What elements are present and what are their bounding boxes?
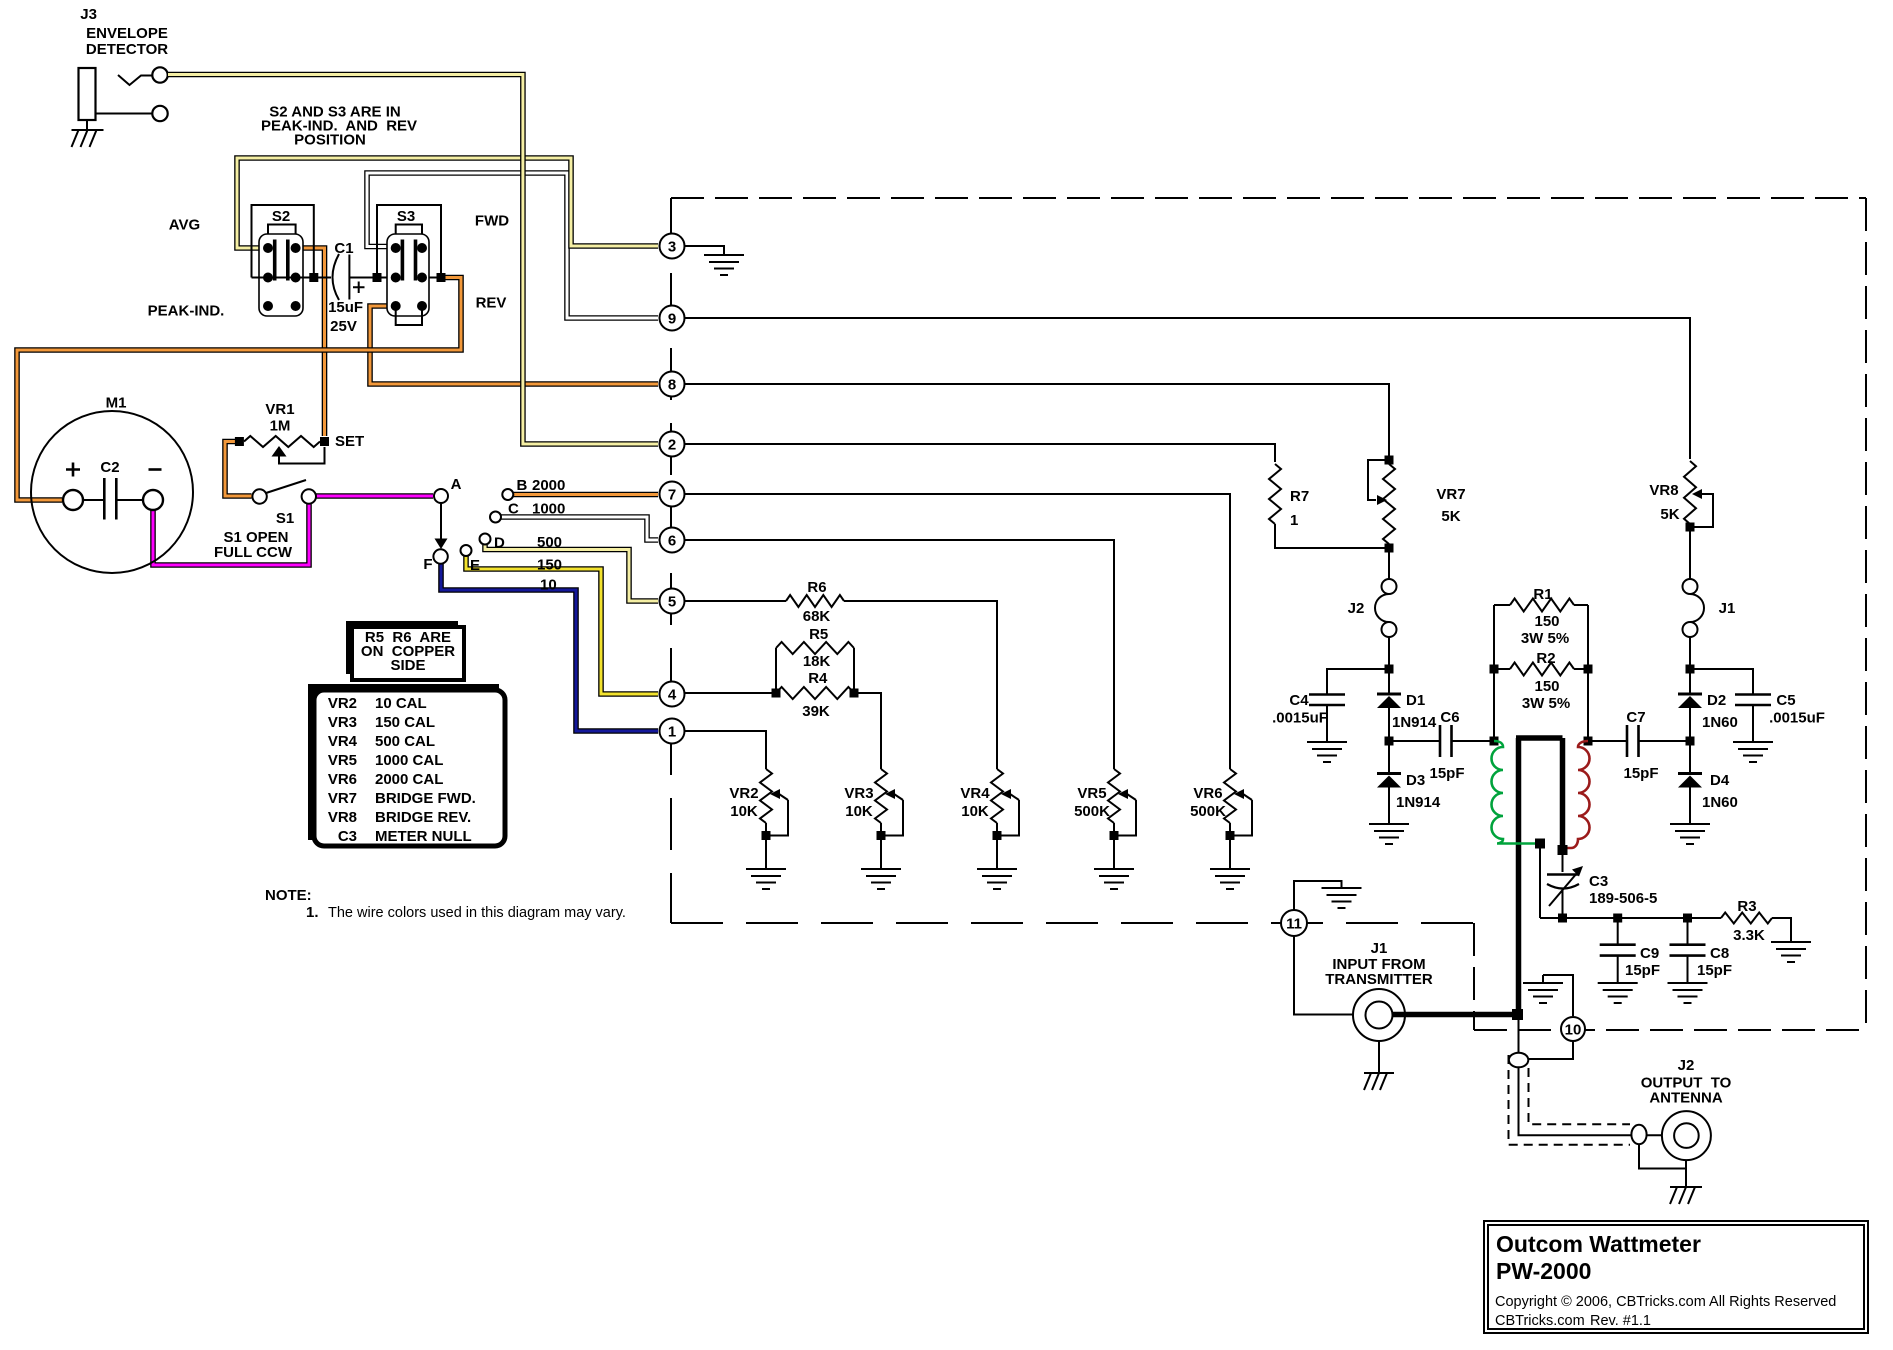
resistor R7 1	[1269, 464, 1385, 548]
svg-text:189-506-5: 189-506-5	[1589, 890, 1657, 907]
svg-text:5: 5	[668, 594, 676, 611]
wire row to C6	[1389, 740, 1440, 742]
svg-text:3: 3	[668, 239, 676, 256]
ground C8	[1668, 983, 1708, 1003]
svg-text:10K: 10K	[961, 803, 989, 820]
resistor R4 39K	[776, 687, 854, 699]
ground C5	[1733, 742, 1773, 762]
svg-text:10K: 10K	[845, 803, 873, 820]
svg-text:C3: C3	[338, 828, 357, 845]
svg-text:.0015uF: .0015uF	[1272, 710, 1328, 727]
PCB dashed border top	[671, 197, 1866, 199]
node D	[480, 534, 491, 545]
svg-text:C1: C1	[334, 240, 353, 257]
info box R5 R6 ARE ON COPPER SIDE	[346, 621, 464, 680]
wire to C4	[1327, 669, 1389, 694]
svg-text:VR7: VR7	[1436, 486, 1465, 503]
wire terminal 2 to R7	[684, 444, 1275, 462]
svg-text:VR3: VR3	[328, 714, 357, 731]
potentiometer VR7 5K	[1368, 460, 1395, 579]
wire to C5	[1690, 669, 1753, 694]
wire R6 to VR4	[844, 601, 997, 769]
terminal 5	[660, 589, 685, 614]
svg-text:5K: 5K	[1441, 508, 1460, 525]
node C	[490, 512, 501, 523]
svg-text:15pF: 15pF	[1697, 962, 1732, 979]
svg-text:4: 4	[668, 687, 677, 704]
svg-text:BRIDGE REV.: BRIDGE REV.	[375, 809, 471, 826]
svg-text:150 CAL: 150 CAL	[375, 714, 435, 731]
terminal 2	[660, 432, 685, 457]
meter terminal plus	[63, 490, 83, 510]
wire terminal 1 to VR2	[684, 731, 766, 769]
title block	[1484, 1221, 1868, 1333]
PCB dashed border left	[670, 198, 672, 923]
ground D4	[1670, 824, 1710, 844]
svg-text:150: 150	[1534, 678, 1559, 695]
svg-text:PW-2000: PW-2000	[1496, 1258, 1591, 1284]
svg-text:C3: C3	[1589, 873, 1608, 890]
junction VR1 SET	[320, 437, 329, 446]
ground chassis J1	[1364, 1041, 1394, 1090]
svg-text:The wire colors used in this d: The wire colors used in this diagram may…	[328, 905, 626, 921]
ground VR6	[1229, 850, 1231, 868]
terminal 6	[660, 528, 685, 553]
svg-text:15uF: 15uF	[328, 299, 363, 316]
table box VR2-C3 functions	[308, 684, 505, 846]
svg-text:R1: R1	[1533, 586, 1552, 603]
wire terminal 7 to VR6	[684, 494, 1230, 769]
svg-text:500: 500	[537, 534, 562, 551]
wire magenta S1 to node A	[316, 493, 433, 499]
junction VR8 bottom	[1686, 523, 1695, 532]
svg-text:1N60: 1N60	[1702, 714, 1738, 731]
svg-text:18K: 18K	[803, 653, 831, 670]
ground VR4	[996, 850, 998, 868]
svg-text:1000: 1000	[532, 501, 565, 518]
wire orange S2 to VR1 SET	[296, 248, 325, 436]
junction R2 left	[1490, 665, 1499, 674]
svg-text:VR5: VR5	[1077, 785, 1106, 802]
svg-text:1: 1	[668, 724, 676, 741]
wire S2 middle row to C1	[252, 277, 332, 279]
switch S1	[252, 480, 316, 504]
PCB dashed border bottom-left	[671, 922, 1474, 924]
svg-text:J1: J1	[1371, 940, 1388, 957]
svg-text:3W 5%: 3W 5%	[1521, 630, 1569, 647]
switch S2	[252, 205, 314, 316]
resistor R1 150 3W 5%	[1494, 599, 1588, 742]
arrow A to F	[435, 503, 448, 549]
wire blue node F to terminal 1	[441, 563, 658, 731]
svg-text:500 CAL: 500 CAL	[375, 733, 435, 750]
capacitor C6 15pF	[1440, 725, 1494, 757]
svg-text:25V: 25V	[330, 318, 357, 335]
resistor R3 3.3K	[1721, 913, 1791, 942]
svg-text:D: D	[494, 535, 505, 552]
svg-text:SET: SET	[335, 433, 364, 450]
svg-text:C5: C5	[1776, 692, 1795, 709]
svg-text:1N60: 1N60	[1702, 794, 1738, 811]
svg-text:S1: S1	[276, 510, 294, 527]
junction D1 bottom	[1385, 737, 1394, 746]
terminal 7	[660, 482, 685, 507]
svg-text:1N914: 1N914	[1396, 794, 1441, 811]
diode D3 1N914	[1377, 741, 1401, 823]
svg-text:R5: R5	[809, 626, 828, 643]
label ENVELOPE DETECTOR	[86, 25, 168, 58]
svg-text:REV: REV	[476, 295, 507, 312]
svg-text:FULL CCW: FULL CCW	[214, 544, 293, 561]
junction green tap	[1535, 839, 1545, 849]
wire line down to feedthrough	[1518, 1015, 1520, 1054]
svg-text:C9: C9	[1640, 945, 1659, 962]
svg-text:DETECTOR: DETECTOR	[86, 41, 168, 58]
svg-text:R6: R6	[807, 579, 826, 596]
svg-text:NOTE:: NOTE:	[265, 887, 312, 904]
junction core bottom	[1558, 845, 1568, 855]
junction VR7 bottom	[1385, 544, 1394, 553]
capacitor C7 15pF	[1627, 725, 1690, 757]
svg-text:68K: 68K	[803, 608, 831, 625]
svg-text:VR6: VR6	[1193, 785, 1222, 802]
svg-text:1.: 1.	[306, 904, 319, 921]
svg-text:Outcom Wattmeter: Outcom Wattmeter	[1496, 1231, 1701, 1257]
svg-text:R7: R7	[1290, 488, 1309, 505]
svg-text:Rev. #1.1: Rev. #1.1	[1590, 1313, 1651, 1329]
diode D4 1N60	[1678, 741, 1702, 823]
jack J3 envelope detector	[79, 67, 168, 121]
label plus	[66, 463, 80, 477]
svg-text:VR4: VR4	[328, 733, 358, 750]
wire feedthrough to terminal 10	[1528, 1041, 1573, 1059]
svg-text:VR4: VR4	[960, 785, 990, 802]
svg-text:C2: C2	[100, 459, 119, 476]
svg-text:POSITION: POSITION	[294, 132, 366, 149]
wire terminal 5 to R6	[684, 600, 786, 602]
junction R4 right	[850, 689, 859, 698]
wire J2 to row	[1388, 637, 1390, 694]
ground chassis J2	[1639, 1145, 1702, 1205]
wire R4 to VR3	[854, 693, 881, 769]
svg-text:R3: R3	[1737, 898, 1756, 915]
label J1 INPUT FROM TRANSMITTER	[1325, 940, 1433, 988]
terminal 3	[660, 234, 685, 259]
svg-text:A: A	[451, 476, 462, 493]
svg-text:J1: J1	[1719, 600, 1736, 617]
terminal 10	[1561, 1017, 1585, 1041]
svg-text:J2: J2	[1678, 1057, 1695, 1074]
wire orange S3 middle to M1 plus terminal	[17, 278, 461, 501]
potentiometer VR3 10K	[875, 769, 903, 850]
svg-text:2: 2	[668, 437, 676, 454]
wire terminal 11 up to ground	[1294, 881, 1362, 910]
ground C4	[1307, 742, 1347, 762]
svg-text:7: 7	[668, 487, 676, 504]
coax jack J1 input from transmitter	[1353, 989, 1405, 1041]
ground D3	[1369, 824, 1409, 844]
feedthrough insulator	[1509, 1053, 1528, 1068]
potentiometer VR2 10K	[760, 769, 788, 850]
svg-text:VR2: VR2	[328, 695, 357, 712]
svg-text:F: F	[423, 556, 432, 573]
wire orange S3 REV contact to terminal 8	[370, 306, 658, 384]
note wire colors	[265, 887, 626, 921]
ground VR5	[1113, 850, 1115, 868]
svg-text:5K: 5K	[1660, 506, 1679, 523]
label J2 OUTPUT TO ANTENNA	[1641, 1057, 1732, 1107]
label minus	[149, 468, 162, 471]
svg-text:11: 11	[1286, 916, 1302, 933]
svg-text:R4: R4	[808, 670, 828, 687]
junction S3 left	[373, 273, 382, 282]
transformer core and through-line	[1516, 738, 1563, 1012]
wire J1 to row	[1689, 637, 1691, 694]
wire terminal 3 to ground	[684, 246, 724, 254]
wire terminal 6 to VR5	[684, 540, 1114, 769]
terminal 9	[660, 306, 685, 331]
svg-text:15pF: 15pF	[1623, 765, 1658, 782]
switch S3	[377, 205, 441, 325]
svg-text:15pF: 15pF	[1429, 765, 1464, 782]
svg-text:D3: D3	[1406, 772, 1425, 789]
svg-text:VR7: VR7	[328, 790, 357, 807]
svg-text:TRANSMITTER: TRANSMITTER	[1325, 971, 1433, 988]
svg-text:1N914: 1N914	[1392, 714, 1437, 731]
wire thick J1 to transformer line	[1393, 1012, 1519, 1018]
svg-text:D1: D1	[1406, 692, 1425, 709]
svg-text:VR8: VR8	[1649, 482, 1678, 499]
svg-text:VR3: VR3	[844, 785, 873, 802]
ground VR3	[880, 850, 882, 868]
wire yellow S2 to terminal 3	[237, 158, 658, 248]
diode D1 1N914	[1377, 694, 1401, 737]
dashed coax shield path	[1509, 1055, 1631, 1145]
svg-text:VR8: VR8	[328, 809, 357, 826]
wire yellow J3 tip to terminal 2	[168, 75, 658, 445]
svg-text:150: 150	[537, 557, 562, 574]
potentiometer VR1 1M	[244, 436, 325, 464]
coax jack J2 output to antenna	[1662, 1111, 1711, 1160]
svg-text:1000 CAL: 1000 CAL	[375, 752, 443, 769]
svg-text:E: E	[470, 557, 480, 574]
junction C3 bottom	[1558, 914, 1567, 923]
terminal 11	[1281, 910, 1307, 936]
svg-text:2000: 2000	[532, 477, 565, 494]
svg-text:10: 10	[1565, 1022, 1582, 1039]
svg-text:500K: 500K	[1190, 803, 1226, 820]
svg-text:VR2: VR2	[729, 785, 758, 802]
svg-text:2000 CAL: 2000 CAL	[375, 771, 443, 788]
transformer secondary red coil	[1562, 741, 1590, 848]
terminal 1	[660, 719, 685, 744]
junction D2 top	[1686, 665, 1695, 674]
svg-text:METER NULL: METER NULL	[375, 828, 472, 845]
svg-text:6: 6	[668, 533, 676, 550]
junction C9	[1613, 914, 1622, 923]
svg-text:Copyright © 2006, CBTricks.com: Copyright © 2006, CBTricks.com All Right…	[1495, 1294, 1836, 1310]
wire center conductor to J2	[1519, 1067, 1675, 1135]
junction VR7 top	[1385, 456, 1394, 465]
svg-text:15pF: 15pF	[1625, 962, 1660, 979]
resistor R5 18K	[776, 642, 854, 693]
wire terminal 4 to R4	[684, 692, 776, 694]
wire pale-yellow node D to terminal 5	[485, 545, 658, 601]
terminal 4	[660, 682, 685, 707]
wire row to C7	[1588, 740, 1627, 742]
junction S3 right	[437, 273, 446, 282]
svg-text:150: 150	[1534, 613, 1559, 630]
svg-text:FWD: FWD	[475, 213, 509, 230]
svg-text:9: 9	[668, 311, 676, 328]
svg-text:ANTENNA: ANTENNA	[1649, 1090, 1722, 1107]
potentiometer VR4 10K	[991, 769, 1019, 850]
potentiometer VR5 500K	[1108, 769, 1136, 850]
junction D1 top	[1385, 665, 1394, 674]
svg-text:C4: C4	[1289, 692, 1309, 709]
svg-text:3.3K: 3.3K	[1733, 927, 1765, 944]
svg-text:10K: 10K	[730, 803, 758, 820]
wire terminal 8 to VR7	[684, 384, 1389, 458]
capacitor C4 .0015uF	[1309, 695, 1345, 742]
coax ferrule	[1631, 1125, 1646, 1144]
svg-text:C7: C7	[1626, 709, 1645, 726]
transformer primary green coil	[1492, 741, 1541, 844]
junction S2 right	[309, 273, 318, 282]
resistor R2 150 3W 5%	[1494, 663, 1588, 676]
node E	[461, 545, 472, 556]
junction transformer secondary top	[1584, 737, 1593, 746]
wire white node C to terminal 6	[501, 517, 658, 540]
wire terminal 9 to VR8	[684, 318, 1690, 459]
wire green tap down	[1539, 844, 1541, 919]
svg-text:VR5: VR5	[328, 752, 357, 769]
svg-text:C6: C6	[1440, 709, 1459, 726]
ground VR2	[765, 850, 767, 868]
svg-text:VR1: VR1	[265, 401, 294, 418]
svg-text:B: B	[517, 477, 528, 494]
svg-text:1: 1	[1290, 512, 1298, 529]
svg-text:500K: 500K	[1074, 803, 1110, 820]
svg-text:M1: M1	[106, 395, 127, 412]
wire yellow node E to terminal 4	[466, 556, 658, 694]
node B	[502, 489, 513, 500]
potentiometer VR6 500K	[1224, 769, 1252, 850]
capacitor C2 inside meter	[83, 478, 143, 520]
svg-text:1M: 1M	[270, 418, 291, 435]
junction R4 left	[772, 689, 781, 698]
svg-text:CBTricks.com: CBTricks.com	[1495, 1313, 1585, 1329]
svg-text:3W 5%: 3W 5%	[1522, 695, 1570, 712]
potentiometer VR8 5K	[1684, 461, 1713, 579]
junction transformer primary top	[1490, 737, 1499, 746]
svg-text:J2: J2	[1348, 600, 1365, 617]
svg-text:SIDE: SIDE	[390, 657, 425, 674]
capacitor C1 15uF 25V	[333, 254, 365, 300]
svg-text:39K: 39K	[802, 703, 830, 720]
wire terminal 11 down to J1	[1294, 936, 1353, 1015]
PCB dashed border right	[1865, 198, 1867, 1030]
svg-text:D2: D2	[1707, 692, 1726, 709]
ground near terminal 10	[1523, 975, 1573, 1016]
diode D2 1N60	[1678, 694, 1702, 737]
capacitor C9 15pF	[1600, 918, 1636, 982]
capacitor C5 .0015uF	[1735, 695, 1771, 742]
jumper J2	[1375, 579, 1397, 637]
svg-text:D4: D4	[1710, 772, 1730, 789]
svg-text:ENVELOPE: ENVELOPE	[86, 25, 168, 42]
node A	[434, 489, 448, 503]
svg-text:BRIDGE FWD.: BRIDGE FWD.	[375, 790, 476, 807]
wire orange node B to terminal 7	[514, 492, 659, 498]
svg-text:S2: S2	[272, 208, 290, 225]
wire magenta M1 minus to S1	[153, 504, 309, 565]
resistor R6 68K	[786, 595, 844, 607]
label S1 OPEN FULL CCW	[214, 529, 293, 561]
svg-text:AVG: AVG	[169, 217, 200, 234]
svg-text:J3: J3	[80, 6, 97, 23]
junction R2 right	[1584, 665, 1593, 674]
svg-text:10: 10	[540, 577, 557, 594]
svg-text:8: 8	[668, 377, 676, 394]
meter M1	[31, 411, 193, 573]
wire orange VR1 left to S1	[225, 442, 252, 497]
PCB dashed border bottom-right	[1474, 1029, 1866, 1031]
meter terminal minus	[143, 490, 163, 510]
wire C1 to S3 middle	[349, 277, 441, 279]
terminal 8	[660, 372, 685, 397]
svg-text:C8: C8	[1710, 945, 1729, 962]
wire white S3 to terminal 9	[367, 173, 658, 318]
svg-text:.0015uF: .0015uF	[1769, 710, 1825, 727]
svg-text:C: C	[508, 501, 519, 518]
ground terminal 3	[704, 255, 744, 275]
ground R3	[1771, 942, 1811, 962]
jumper J1	[1683, 579, 1705, 637]
junction VR1 left	[235, 437, 244, 446]
capacitor C3 variable 189-506-5	[1547, 850, 1583, 918]
svg-text:10 CAL: 10 CAL	[375, 695, 427, 712]
svg-text:PEAK-IND.: PEAK-IND.	[148, 303, 225, 320]
capacitor C8 15pF	[1670, 918, 1706, 982]
junction C8	[1683, 914, 1692, 923]
ground chassis J3	[72, 120, 104, 147]
PCB dashed border notch	[1473, 923, 1475, 1030]
svg-text:S3: S3	[397, 208, 415, 225]
junction J1 line	[1512, 1009, 1523, 1020]
wire bottom row	[1540, 917, 1721, 919]
svg-text:VR6: VR6	[328, 771, 357, 788]
junction D2 bottom	[1686, 737, 1695, 746]
ground C9	[1598, 983, 1638, 1003]
node F	[433, 549, 447, 563]
note S2 AND S3 ARE IN PEAK-IND. AND REV POSITION	[261, 104, 417, 149]
svg-text:R2: R2	[1536, 650, 1555, 667]
